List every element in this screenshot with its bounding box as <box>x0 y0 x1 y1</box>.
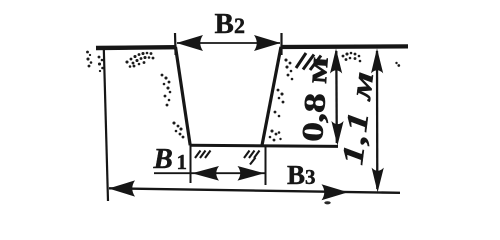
svg-text:В: В <box>215 8 234 40</box>
svg-text:1,1 м: 1,1 м <box>335 68 380 167</box>
ground line left segment <box>96 45 177 50</box>
stipple dots along right trench wall <box>269 58 294 141</box>
label B3 <box>287 160 316 190</box>
dimension B1 left arrowhead <box>192 166 219 181</box>
dimension 0,8m up arrowhead <box>330 49 342 74</box>
dimension 1,1m down arrowhead <box>372 168 384 193</box>
dimension B3 extension line left <box>104 49 108 202</box>
dimension B2 extension line left <box>174 33 177 55</box>
svg-text:1: 1 <box>177 150 188 174</box>
hatch marks under trench bottom left <box>195 151 211 159</box>
dimension B2 extension line right <box>280 33 282 55</box>
hatch marks at ground right of trench <box>296 53 321 70</box>
stipple dots right of 1,1 dimension <box>395 62 400 67</box>
dimension B1 right arrowhead <box>238 166 265 181</box>
dimension B2 left arrowhead <box>177 35 204 51</box>
dimension 1,1m up arrowhead <box>371 48 383 73</box>
dimension 0,8m down arrowhead <box>331 121 343 146</box>
svg-text:0,8 м: 0,8 м <box>296 56 335 143</box>
svg-text:2: 2 <box>234 13 245 38</box>
dimension B2 right arrowhead <box>254 35 281 51</box>
stipple dots left of ground-line start <box>86 51 92 68</box>
stipple dots near left extension line <box>98 56 104 73</box>
dimension 1,1m line <box>376 51 379 189</box>
trench left wall <box>176 47 191 146</box>
stipple dots along left trench wall <box>161 74 185 139</box>
dimension B2 line <box>177 42 280 44</box>
dimension B1 line <box>154 172 265 174</box>
ink speck below B3 arrowhead <box>324 201 330 204</box>
label B2 <box>215 8 246 40</box>
trench bottom line <box>190 145 339 146</box>
stipple dots between 0,8 and 1,1 dimensions <box>342 52 362 63</box>
dimension B1 extension line left <box>190 146 192 183</box>
label B1 <box>153 143 188 175</box>
svg-text:В: В <box>153 143 173 175</box>
svg-text:В: В <box>287 160 305 190</box>
svg-text:3: 3 <box>305 165 316 189</box>
dimension B3 left arrowhead <box>109 180 135 196</box>
hatch marks under trench bottom right <box>244 151 260 165</box>
ground line right segment <box>281 44 409 49</box>
dimension B1 extension line right <box>265 146 267 185</box>
dimension B3 right arrowhead <box>322 184 349 200</box>
trench right wall <box>262 47 281 146</box>
stipple dot cluster left of trench <box>125 52 154 68</box>
dimension B3 line <box>109 188 400 193</box>
dimension 0,8m line <box>335 51 338 143</box>
